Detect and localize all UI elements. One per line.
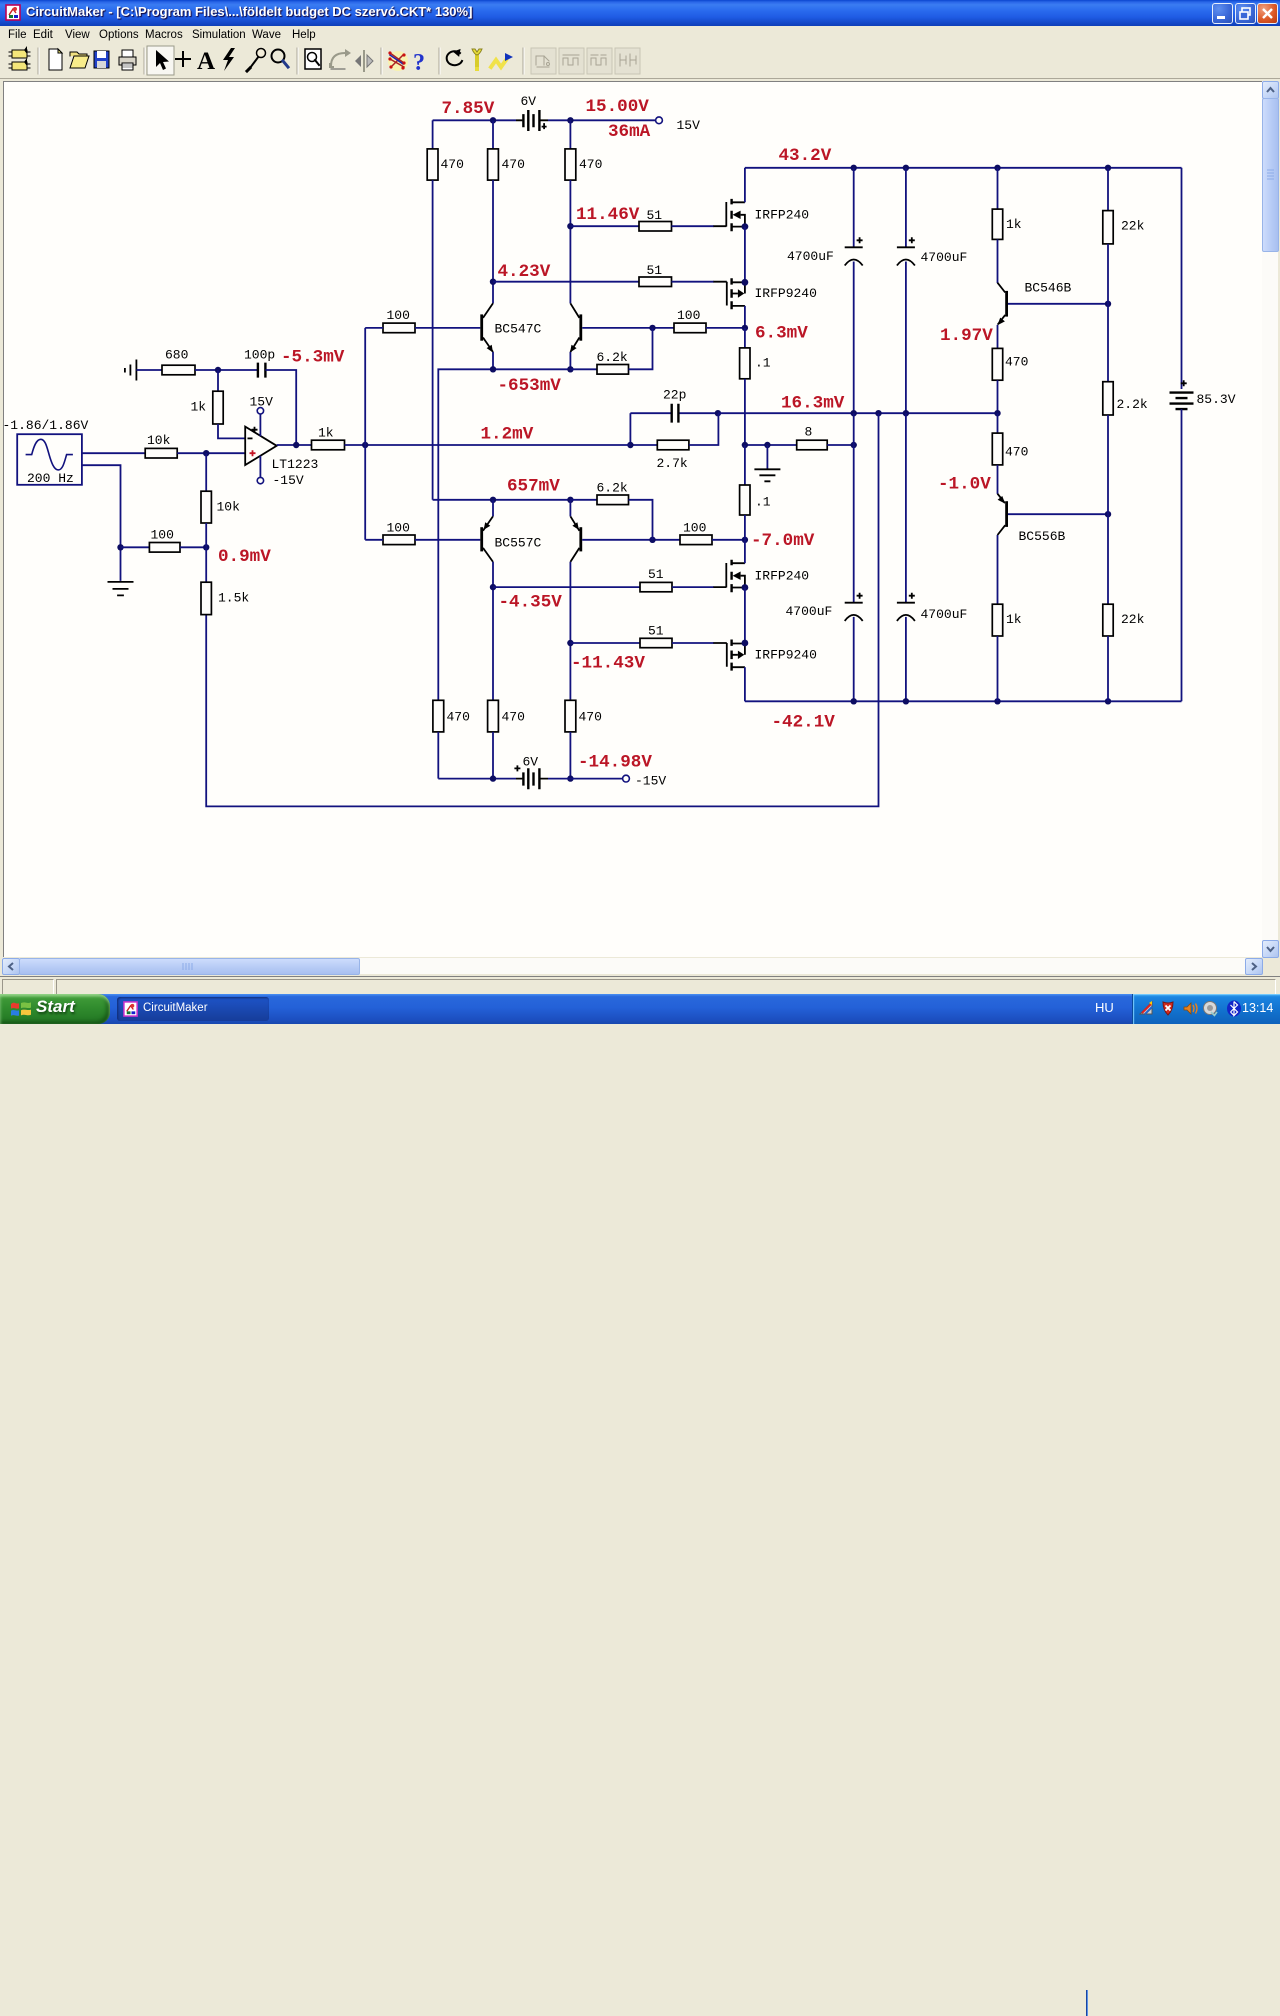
svg-text:IRFP240: IRFP240 bbox=[755, 569, 810, 584]
wire Q3 collector down to -4.35V node and R470 bbox=[492, 562, 494, 700]
bluetooth bbox=[1227, 1001, 1241, 1017]
disabled scope buttons bbox=[531, 48, 640, 74]
plus bbox=[176, 52, 190, 66]
wire base feed column bbox=[364, 328, 366, 540]
wire M4 drain to -42.1V rail bbox=[744, 667, 746, 701]
run probe bbox=[491, 53, 513, 67]
resistor R100 divider bbox=[121, 528, 207, 553]
svg-text:2.2k: 2.2k bbox=[1117, 397, 1148, 412]
wire Q2 emitter down bbox=[569, 352, 571, 369]
svg-text:22p: 22p bbox=[663, 388, 686, 403]
svg-text:6V: 6V bbox=[523, 755, 539, 770]
svg-text:470: 470 bbox=[447, 710, 470, 725]
svg-text:470: 470 bbox=[502, 710, 525, 725]
svg-text:470: 470 bbox=[579, 157, 602, 172]
capacitor C3 4700uF lower-left bbox=[786, 445, 863, 701]
svg-text:6.2k: 6.2k bbox=[597, 350, 628, 365]
node 1.2mV / 2.7k left bbox=[627, 442, 633, 448]
svg-text:-4.35V: -4.35V bbox=[499, 593, 563, 613]
node Q1 emitter bbox=[490, 366, 496, 372]
svg-text:22k: 22k bbox=[1121, 612, 1145, 627]
resistor R100 to -7.0mV node bbox=[680, 521, 745, 545]
node Q2 emitter bbox=[567, 366, 573, 372]
transistor Q3 BC557C left bbox=[480, 516, 541, 562]
svg-text:4700uF: 4700uF bbox=[786, 604, 833, 619]
node rail divider bbox=[1105, 165, 1111, 171]
svg-text:470: 470 bbox=[441, 157, 464, 172]
svg-text:6.2k: 6.2k bbox=[597, 481, 628, 496]
wire Q3 emitter up bbox=[492, 500, 494, 517]
resistor R100 to 6.3mV node bbox=[674, 308, 745, 333]
select arrow (pressed) bbox=[147, 46, 174, 75]
ground symbol speaker bbox=[754, 445, 780, 481]
resistor R100 Q1 base bbox=[383, 308, 415, 333]
wire Q4 base right bbox=[582, 539, 680, 541]
wire 1.2mV line bbox=[345, 444, 631, 446]
node 11.46V bbox=[567, 223, 573, 229]
wire battery to 15V terminal bbox=[548, 119, 655, 121]
status bar bbox=[0, 976, 1280, 995]
wire 470TM down to 4.23V node and Q1 collector bbox=[492, 180, 494, 303]
drawing canvas frame bbox=[0, 79, 1280, 977]
wire -15V rail bottom bbox=[438, 778, 516, 780]
vertical scrollbar bbox=[1262, 81, 1278, 956]
wire battery to -15V terminal bbox=[548, 778, 622, 780]
node output/100p bbox=[293, 442, 299, 448]
svg-text:BC556B: BC556B bbox=[1019, 529, 1066, 544]
wire source bottom to ground bbox=[82, 465, 121, 581]
resistor R0.1 top bbox=[740, 328, 771, 379]
svg-text:1.5k: 1.5k bbox=[218, 591, 249, 606]
svg-text:100: 100 bbox=[151, 528, 174, 543]
mosfet M2 IRFP9240 top bbox=[713, 278, 817, 309]
node rail bias bbox=[994, 165, 1000, 171]
wire M3 source to M4 source bbox=[744, 588, 746, 644]
save bbox=[94, 51, 109, 68]
wire Q5 base to divider bbox=[1008, 303, 1108, 305]
svg-text:BC546B: BC546B bbox=[1025, 281, 1072, 296]
node rail cap4 bbox=[903, 698, 909, 704]
svg-text:100: 100 bbox=[387, 308, 410, 323]
capacitor C100p bbox=[244, 348, 296, 446]
mosfet M1 IRFP240 top bbox=[713, 199, 809, 231]
svg-text:-653mV: -653mV bbox=[498, 376, 562, 396]
resistor R470 bottom-mid bbox=[488, 700, 525, 778]
wire Q2 base to 6.3mV branch bbox=[582, 327, 674, 329]
svg-text:470: 470 bbox=[579, 710, 602, 725]
resistor R10k input bbox=[145, 433, 177, 458]
svg-text:680: 680 bbox=[165, 348, 188, 363]
resistor R1k output bbox=[312, 426, 345, 450]
svg-text:8: 8 bbox=[805, 425, 813, 440]
svg-text:BC557C: BC557C bbox=[495, 536, 542, 551]
svg-text:1k: 1k bbox=[1006, 612, 1022, 627]
node 680/1k bbox=[215, 367, 221, 373]
node bottom rail right bbox=[567, 775, 573, 781]
node ground stub bbox=[764, 442, 770, 448]
wire R51 to M1 gate bbox=[672, 225, 715, 227]
transistor Q6 BC556B bbox=[998, 494, 1066, 544]
node Q4 base / 6.2k bbox=[649, 537, 655, 543]
resistor R0.1 bottom bbox=[740, 445, 771, 540]
wrench bbox=[472, 49, 482, 71]
source VG1 sine generator bbox=[17, 434, 82, 486]
svg-text:1k: 1k bbox=[191, 400, 207, 415]
resistor R1.5k bbox=[201, 547, 249, 614]
svg-text:-1.0V: -1.0V bbox=[938, 475, 991, 495]
wire feedback down and across bbox=[206, 413, 878, 806]
zoom page bbox=[305, 49, 321, 69]
wire cap1 col between nodes bbox=[853, 413, 855, 445]
resistor R2.7k bbox=[630, 413, 718, 471]
capacitor C1 4700uF upper-left bbox=[787, 168, 863, 413]
svg-text:100: 100 bbox=[677, 308, 700, 323]
svg-text:100: 100 bbox=[683, 521, 706, 536]
resistor R51 upper gate bbox=[639, 208, 672, 231]
node 7.85V junction bbox=[490, 117, 496, 123]
svg-text:200 Hz: 200 Hz bbox=[27, 471, 74, 486]
svg-text:11.46V: 11.46V bbox=[576, 205, 640, 225]
node 0.9mV bbox=[203, 544, 209, 550]
svg-text:51: 51 bbox=[647, 263, 663, 278]
resistor R470 bias lower bbox=[992, 413, 1028, 494]
node +input bbox=[203, 450, 209, 456]
svg-text:15V: 15V bbox=[677, 118, 701, 133]
svg-text:1.2mV: 1.2mV bbox=[481, 425, 534, 445]
node -4.35V bbox=[490, 584, 496, 590]
wire NPN emitter rail bbox=[438, 369, 570, 700]
svg-text:43.2V: 43.2V bbox=[779, 146, 832, 166]
wire M3 drain up to -7.0mV node bbox=[744, 540, 746, 563]
svg-text:-15V: -15V bbox=[273, 473, 304, 488]
svg-text:6.3mV: 6.3mV bbox=[755, 324, 808, 344]
wire M2 drain to 6.3mV node bbox=[744, 306, 746, 328]
svg-text:36mA: 36mA bbox=[608, 122, 651, 142]
wire Q1 emitter down bbox=[492, 352, 494, 369]
wire output 16.3mV line bbox=[718, 412, 998, 414]
mosfet M3 IRFP240 bottom bbox=[713, 560, 809, 592]
resistor R8 speaker bbox=[797, 425, 854, 450]
ground input bbox=[108, 582, 134, 596]
node rail cap2 bbox=[903, 165, 909, 171]
svg-text:-1.86/1.86V: -1.86/1.86V bbox=[4, 418, 89, 433]
resistor R100 Q3 base bbox=[383, 521, 415, 545]
node Q3 emitter bbox=[490, 497, 496, 503]
horizontal scrollbar bbox=[2, 958, 1261, 974]
lightning bbox=[223, 48, 235, 71]
svg-text:7.85V: 7.85V bbox=[442, 99, 495, 119]
node Q5 base bbox=[1105, 301, 1111, 307]
wire -11.43V to R51 bbox=[570, 642, 640, 644]
svg-text:470: 470 bbox=[502, 157, 525, 172]
volume speaker bbox=[1184, 1003, 1191, 1014]
svg-text:1k: 1k bbox=[318, 426, 334, 441]
wire +43.2V rail bbox=[745, 167, 1182, 169]
resistor R470 top-right bbox=[565, 120, 602, 180]
window title bar bbox=[0, 0, 1280, 26]
svg-text:-7.0mV: -7.0mV bbox=[751, 531, 815, 551]
svg-text:BC547C: BC547C bbox=[495, 322, 542, 337]
resistor R51 fourth gate bbox=[640, 624, 672, 648]
resistor R51 third gate bbox=[640, 567, 672, 592]
svg-text:4700uF: 4700uF bbox=[921, 607, 968, 622]
mosfet M4 IRFP9240 bottom bbox=[713, 640, 817, 671]
svg-text:-5.3mV: -5.3mV bbox=[281, 348, 345, 368]
svg-text:1.97V: 1.97V bbox=[940, 326, 993, 346]
svg-text:16.3mV: 16.3mV bbox=[781, 394, 845, 414]
transistor Q4 BC557C right (mirrored) bbox=[570, 516, 582, 562]
capacitor C4 4700uF lower-right bbox=[897, 413, 967, 701]
svg-text:85.3V: 85.3V bbox=[1197, 392, 1236, 407]
svg-text:-42.1V: -42.1V bbox=[772, 713, 836, 733]
node rail cap1 bbox=[851, 165, 857, 171]
node M1 source bbox=[742, 223, 749, 230]
flip bbox=[355, 51, 373, 71]
svg-text:-14.98V: -14.98V bbox=[578, 753, 652, 773]
wire R100 left to feedback column bbox=[365, 539, 383, 541]
magnifier bbox=[272, 50, 289, 68]
new bbox=[49, 49, 62, 70]
soundmax bbox=[1204, 1002, 1217, 1015]
resistor R22k bottom bbox=[1103, 604, 1145, 701]
wire Q4 collector down to -11.43V node and R470 bbox=[569, 562, 571, 700]
node 15.00V junction bbox=[567, 117, 573, 123]
battery V1 6V bbox=[516, 94, 548, 131]
svg-text:IRFP9240: IRFP9240 bbox=[755, 286, 817, 301]
svg-text:100: 100 bbox=[387, 521, 410, 536]
wire R100 left to feedback column bbox=[365, 327, 383, 329]
parts browser icon bbox=[9, 46, 30, 70]
node R8 right bbox=[851, 442, 857, 448]
transistor Q1 BC547C left bbox=[480, 303, 541, 352]
terminal +15V bbox=[656, 117, 701, 133]
wire source to R10k bbox=[82, 452, 145, 454]
node divider bbox=[117, 544, 123, 550]
svg-text:4.23V: 4.23V bbox=[498, 262, 551, 282]
wire -42.1V rail bbox=[745, 700, 1182, 702]
node bias mid bbox=[994, 410, 1000, 416]
svg-text:1k: 1k bbox=[1006, 217, 1022, 232]
resistor R10k feedback bbox=[201, 453, 240, 547]
node rail cap3 bbox=[851, 698, 857, 704]
node M4 source bbox=[742, 640, 749, 647]
wire speaker ground segment bbox=[745, 444, 797, 446]
node 4.23V bbox=[490, 279, 496, 285]
resistor R6.2k top bbox=[570, 328, 652, 374]
wire 4.23V to R51 bbox=[493, 281, 639, 283]
wire R51 to M3 gate bbox=[672, 586, 714, 588]
wire R100 to Q1 base bbox=[415, 327, 480, 329]
svg-text:-11.43V: -11.43V bbox=[571, 654, 645, 674]
svg-text:4700uF: 4700uF bbox=[787, 249, 834, 264]
node 2.7k/22p right bbox=[715, 410, 721, 416]
battery V2 6V bottom bbox=[514, 755, 548, 790]
svg-text:2.7k: 2.7k bbox=[657, 456, 688, 471]
battery V3 85.3V right bbox=[1170, 168, 1236, 702]
node base column bbox=[362, 442, 368, 448]
svg-text:51: 51 bbox=[647, 208, 663, 223]
wire M1 source to M2 source bbox=[744, 227, 746, 283]
toolbar bbox=[0, 45, 1280, 79]
svg-text:0.9mV: 0.9mV bbox=[218, 547, 271, 567]
svg-text:51: 51 bbox=[648, 567, 664, 582]
node -7.0mV bbox=[742, 537, 748, 543]
wire 470TL down to PNP emitter rail bbox=[432, 180, 434, 500]
node rail divider2 bbox=[1105, 698, 1111, 704]
wire M1 drain to +43.2V rail bbox=[744, 168, 746, 203]
resistor R470 bias upper bbox=[992, 325, 1028, 413]
svg-text:10k: 10k bbox=[217, 500, 241, 515]
node M3 source bbox=[742, 584, 749, 591]
resistor R470 bottom-left bbox=[433, 700, 470, 778]
wire Q6 base to divider bbox=[1008, 513, 1108, 515]
capacitor C22p bbox=[630, 388, 718, 423]
wire -4.35V to R51 bbox=[493, 586, 640, 588]
wire 22p branch down to 2.7k bbox=[629, 413, 631, 445]
wire R51 to M2 gate bbox=[672, 281, 715, 283]
svg-text:IRFP9240: IRFP9240 bbox=[755, 648, 817, 663]
wire Q4 emitter up bbox=[569, 500, 571, 517]
print bbox=[119, 50, 136, 70]
graphics tray icon bbox=[1140, 1002, 1152, 1014]
resistor R1k bias bottom bbox=[992, 535, 1022, 701]
resistor R470 top-left bbox=[427, 120, 464, 180]
svg-text:-15V: -15V bbox=[635, 774, 666, 789]
node Q6 base bbox=[1105, 511, 1111, 517]
resistor R2.2k bbox=[1103, 382, 1148, 605]
svg-text:470: 470 bbox=[1005, 355, 1028, 370]
terminal +15V opamp bbox=[250, 395, 274, 437]
resistor R1k gain bbox=[191, 370, 246, 438]
wire op-amp output bbox=[277, 444, 312, 446]
svg-text:51: 51 bbox=[648, 624, 664, 639]
open bbox=[70, 52, 89, 68]
node -11.43V bbox=[567, 640, 573, 646]
svg-text:.1: .1 bbox=[755, 495, 771, 510]
capacitor C2 4700uF upper-right bbox=[897, 168, 967, 413]
svg-text:15.00V: 15.00V bbox=[586, 97, 650, 117]
probe bbox=[247, 49, 266, 72]
svg-text:15V: 15V bbox=[250, 395, 274, 410]
transistor Q5 BC546B bbox=[997, 239, 1071, 325]
wire R10k to op-amp +in bbox=[177, 452, 245, 454]
svg-text:10k: 10k bbox=[147, 433, 171, 448]
resistor R22k top bbox=[1103, 168, 1145, 382]
svg-text:A: A bbox=[197, 48, 215, 75]
wire 11.46V to R51 bbox=[570, 225, 639, 227]
wire R51 to M4 gate bbox=[672, 642, 714, 644]
svg-text:100p: 100p bbox=[244, 348, 275, 363]
svg-text:22k: 22k bbox=[1121, 219, 1145, 234]
resistor R6.2k bottom bbox=[570, 481, 652, 540]
taskbar bbox=[0, 994, 1280, 1024]
ground 680 sideways bbox=[125, 360, 162, 381]
node Q2 base / 6.2k top bbox=[649, 325, 655, 331]
node Q4 emitter bbox=[567, 497, 573, 503]
svg-text:LT1223: LT1223 bbox=[272, 457, 319, 472]
wire PNP emitter rail bbox=[433, 499, 571, 501]
rotate bbox=[330, 49, 351, 69]
reset bbox=[447, 46, 464, 65]
terminal -15V bbox=[623, 774, 667, 789]
svg-text:657mV: 657mV bbox=[507, 477, 560, 497]
node R0.1 junction bbox=[742, 442, 748, 448]
resistor R1k bias top bbox=[992, 168, 1022, 240]
svg-text:?: ? bbox=[413, 50, 425, 76]
node cap2/output line bbox=[903, 410, 909, 416]
node cap1/output line bbox=[851, 410, 857, 416]
node rail bias2 bbox=[994, 698, 1000, 704]
terminal -15V opamp bbox=[257, 456, 304, 488]
menu bar bbox=[0, 26, 1280, 45]
wire R0.1 down to speaker ground line bbox=[744, 379, 746, 445]
svg-text:.1: .1 bbox=[755, 356, 771, 371]
security shield bbox=[1163, 1002, 1173, 1015]
wire R100 to Q3 base bbox=[415, 539, 480, 541]
resistor R51 second gate bbox=[639, 263, 672, 287]
op-amp U1 LT1223 bbox=[245, 427, 318, 472]
resistor R470 top-mid bbox=[488, 120, 525, 180]
svg-text:470: 470 bbox=[1005, 445, 1028, 460]
check rules bbox=[388, 51, 408, 71]
resistor R680 bbox=[162, 348, 258, 375]
node output/feedback bbox=[875, 410, 881, 416]
svg-text:4700uF: 4700uF bbox=[921, 250, 968, 265]
wire +15V rail top bbox=[433, 119, 516, 121]
node M2 source bbox=[742, 279, 749, 286]
svg-text:6V: 6V bbox=[521, 94, 537, 109]
resistor R470 bottom-right bbox=[565, 700, 602, 778]
transistor Q2 BC547C right (mirrored) bbox=[570, 303, 582, 352]
svg-text:IRFP240: IRFP240 bbox=[755, 208, 810, 223]
wire 470TR down to 11.46V node and Q2 collector bbox=[569, 180, 571, 303]
node bottom rail mid bbox=[490, 775, 496, 781]
node 6.3mV bbox=[742, 325, 748, 331]
